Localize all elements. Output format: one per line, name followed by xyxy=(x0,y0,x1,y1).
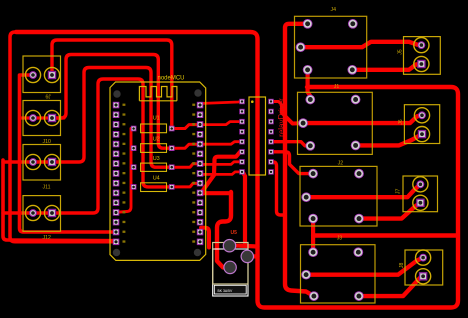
svg-text:U3: U3 xyxy=(153,156,160,162)
svg-text:J5: J5 xyxy=(397,49,403,55)
svg-text:J4: J4 xyxy=(331,7,337,13)
svg-text:J10: J10 xyxy=(43,139,51,145)
svg-text:J12: J12 xyxy=(43,235,51,241)
svg-text:J11: J11 xyxy=(43,184,51,190)
svg-text:U1: U1 xyxy=(153,116,160,122)
svg-text:U4: U4 xyxy=(153,175,160,181)
svg-text:J8: J8 xyxy=(399,263,405,269)
svg-text:J1: J1 xyxy=(334,84,340,90)
svg-text:J3: J3 xyxy=(337,235,343,241)
svg-text:relayDriver: relayDriver xyxy=(277,98,286,137)
svg-text:J9: J9 xyxy=(45,92,51,98)
svg-text:J2: J2 xyxy=(338,160,344,166)
svg-text:BK 3A/5V: BK 3A/5V xyxy=(218,289,233,293)
svg-text:nodeMCU: nodeMCU xyxy=(158,75,185,81)
svg-text:U5: U5 xyxy=(231,230,238,236)
svg-text:J6: J6 xyxy=(398,119,404,125)
svg-text:J7: J7 xyxy=(395,189,401,195)
svg-text:U2: U2 xyxy=(153,136,160,142)
